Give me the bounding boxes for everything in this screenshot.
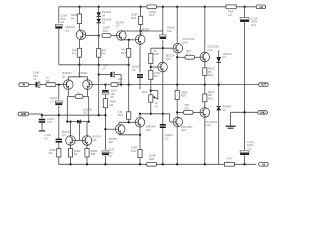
- svg-text:R9: R9: [102, 52, 106, 56]
- node gnd line C12 col: [243, 111, 245, 113]
- svg-text:Q10: Q10: [166, 57, 172, 61]
- node -V rail Q15: [176, 163, 178, 165]
- svg-text:F1: F1: [227, 160, 231, 164]
- svg-text:GND: GND: [260, 110, 266, 114]
- svg-text:Q12: Q12: [146, 128, 152, 132]
- node gnd line C13: [41, 114, 43, 116]
- node Q7 collector R16 col: [139, 30, 141, 32]
- wire Q12 collector down: [139, 127, 141, 149]
- node bridge right: [88, 120, 90, 122]
- capacitor C3: [50, 96, 62, 105]
- svg-text:D4: D4: [102, 13, 106, 17]
- node Q8 base tee: [104, 128, 106, 130]
- wire R5 to bus: [78, 57, 80, 65]
- svg-text:R4: R4: [74, 152, 78, 156]
- wire bus to diff emitter tap: [78, 65, 80, 77]
- resistor R7: [111, 77, 123, 86]
- svg-text:OUT: OUT: [261, 83, 267, 87]
- capacitor C1: [33, 71, 40, 88]
- transistor Q8: [109, 124, 125, 144]
- fuse F1: [224, 157, 234, 167]
- svg-text:Q9: Q9: [139, 31, 143, 35]
- wire Q2 collector up: [69, 120, 71, 135]
- node -V rail R4: [69, 163, 71, 165]
- wire gnd oval to line: [29, 114, 43, 115]
- terminal OUT: [259, 83, 268, 87]
- transistor Q4: [78, 71, 92, 89]
- node -V rail C9 col: [162, 163, 164, 165]
- svg-text:Q11: Q11: [83, 111, 88, 115]
- node bias line C9 col: [162, 113, 164, 115]
- svg-text:C1: C1: [33, 77, 37, 81]
- svg-text:Q14: Q14: [207, 48, 213, 52]
- node -V rail / C11 junction: [243, 163, 245, 165]
- wire C7 branch: [99, 74, 110, 76]
- node FB rail R14 col: [128, 83, 130, 85]
- svg-text:C10: C10: [167, 29, 173, 33]
- transistor Q15: [173, 117, 193, 132]
- wire Q4 collector down: [88, 89, 89, 121]
- wire R14 to bus: [128, 57, 130, 65]
- node rail R16: [139, 6, 141, 8]
- wire rail to R6: [78, 7, 80, 14]
- transistor Q14: [200, 45, 219, 62]
- node bias line trimmer col: [150, 113, 152, 115]
- node gnd line diode col: [98, 114, 100, 116]
- node Q15 top R21 tee: [176, 111, 178, 113]
- wire Q16 base line: [151, 47, 173, 49]
- wire gnd line down to C2: [104, 115, 106, 150]
- svg-text:C7: C7: [102, 66, 106, 70]
- wire diff emitter rail: [68, 77, 87, 80]
- wire C3 column: [58, 85, 60, 100]
- resistor R15: [149, 49, 159, 64]
- wire R15 to Q10 base: [150, 64, 152, 71]
- node bus R5: [78, 64, 80, 66]
- svg-text:R22: R22: [186, 53, 192, 57]
- svg-text:BIAS: BIAS: [142, 91, 148, 94]
- resistor R6: [71, 13, 82, 23]
- wire Q8 emitter lead: [118, 122, 120, 124]
- wire rail to R20: [176, 85, 178, 91]
- capacitor C11: [240, 140, 254, 155]
- wire Q1 collector down: [67, 89, 68, 121]
- svg-text:Q4: Q4: [78, 74, 82, 78]
- wire bottom -V rail: [59, 163, 257, 165]
- svg-text:C11: C11: [247, 146, 252, 150]
- capacitor C6: [102, 89, 117, 100]
- svg-text:R2: R2: [77, 92, 81, 96]
- wire D7 to output rail: [218, 62, 220, 106]
- wire Q14 collector to rail: [204, 7, 206, 52]
- node -V rail R11: [86, 163, 88, 165]
- svg-text:R15: R15: [154, 52, 160, 56]
- wire Q10 base stub: [151, 66, 158, 68]
- wire left gnd line: [42, 114, 105, 116]
- fuse F2: [226, 5, 236, 17]
- wire R7 to FB node: [118, 84, 121, 86]
- wire Q7 emitter to base line Q9: [121, 39, 135, 41]
- capacitor C5: [44, 133, 62, 142]
- wire trimmer to bias line: [150, 102, 152, 114]
- resistor R20: [175, 90, 187, 99]
- svg-text:D5: D5: [102, 21, 106, 25]
- node -V rail R18: [139, 163, 141, 165]
- svg-text:F2: F2: [228, 13, 232, 17]
- node +V rail / C12 junction: [243, 6, 245, 8]
- wire Q7 collector: [121, 30, 162, 32]
- transistor Q12: [135, 118, 156, 132]
- wire R14 col bus to FB rail: [128, 65, 130, 85]
- svg-text:R5: R5: [72, 51, 76, 55]
- wire Q15 collector to -V rail: [176, 127, 178, 165]
- svg-text:R1: R1: [46, 79, 50, 83]
- ground symbol input: [39, 122, 45, 130]
- transistor Q16: [173, 37, 195, 53]
- wire R18 to -V rail: [139, 158, 141, 165]
- wire R11 to -V rail: [86, 157, 88, 164]
- wire C1 to R1: [40, 84, 46, 86]
- wire C3 to gnd line: [58, 106, 60, 116]
- wire rail down to C10: [162, 7, 164, 35]
- diode D1: [77, 120, 81, 124]
- wire left column top: [58, 7, 60, 23]
- svg-text:GND: GND: [21, 112, 27, 116]
- resistor R13: [118, 110, 131, 119]
- svg-text:C2: C2: [108, 154, 112, 158]
- resistor R8: [103, 99, 116, 108]
- svg-text:D6: D6: [222, 108, 226, 112]
- resistor R2: [67, 92, 88, 99]
- wire IN to C1: [29, 84, 36, 86]
- capacitor C4: [55, 14, 67, 29]
- node Q12 base junction: [128, 121, 130, 123]
- resistor R5: [72, 48, 82, 57]
- node Q8 collector junction: [139, 134, 141, 136]
- node Q16 emitter R22 tee: [176, 56, 178, 58]
- capacitor C8: [132, 65, 143, 78]
- svg-text:R24: R24: [208, 73, 213, 77]
- wire ground line right: [231, 111, 259, 113]
- node C10 col base line: [162, 47, 164, 49]
- capacitor C12: [240, 16, 258, 27]
- svg-text:Q15: Q15: [181, 128, 187, 132]
- terminal IN: [19, 83, 29, 87]
- diode D7: [216, 52, 232, 62]
- wire base wire Q2 Q6: [73, 139, 83, 141]
- svg-text:R10: R10: [103, 29, 109, 33]
- resistor R9: [97, 48, 107, 57]
- svg-text:D7: D7: [222, 55, 226, 59]
- wire D5 to base line: [98, 23, 100, 36]
- transistor Q13: [200, 108, 217, 128]
- svg-text:Q16: Q16: [182, 41, 188, 45]
- svg-text:R3: R3: [49, 151, 53, 155]
- wire mid bus: [59, 64, 129, 66]
- wire R24 to output rail: [204, 76, 206, 85]
- resistor R19 on +V rail: [147, 5, 157, 17]
- svg-text:Q7: Q7: [116, 24, 120, 28]
- wire R17 down to trimmer: [150, 80, 152, 95]
- wire R13 to base junction: [128, 119, 130, 122]
- resistor R22: [185, 49, 195, 59]
- wire R3 to -V rail corner: [58, 157, 60, 164]
- wire Q6 emitter to R11: [86, 145, 88, 148]
- resistor R21: [183, 103, 193, 114]
- svg-text:C13: C13: [47, 120, 52, 124]
- wire Q8 collector line: [119, 133, 140, 136]
- wire R21 to Q13 base: [193, 111, 200, 113]
- svg-text:R21: R21: [184, 106, 190, 110]
- node bus R14: [128, 64, 130, 66]
- transistor Q9: [135, 28, 149, 45]
- svg-text:Q1: Q1: [62, 74, 66, 78]
- wire R1 to Q1 base: [56, 84, 64, 86]
- node gnd line R8: [104, 114, 106, 116]
- wire R8 to gnd line: [104, 108, 106, 116]
- wire Q13 collector to -V rail: [204, 117, 206, 164]
- svg-text:C4: C4: [61, 20, 65, 24]
- wire output rail to R23: [204, 85, 206, 94]
- svg-text:IN: IN: [23, 83, 26, 87]
- resistor R16: [131, 13, 143, 25]
- wire C10 to Q10: [162, 40, 164, 63]
- node bias line C8 col: [139, 113, 141, 115]
- node output rail diode col: [218, 83, 220, 85]
- wire Q6 collector up: [86, 122, 88, 136]
- wire R22 line: [177, 56, 185, 58]
- svg-text:R8: R8: [110, 103, 114, 107]
- wire C7 to FB node: [115, 75, 121, 85]
- svg-text:Q6: Q6: [93, 138, 97, 142]
- wire R10 to Q7: [111, 35, 117, 37]
- wire gnd line to C5: [58, 115, 60, 138]
- resistor R18: [131, 146, 142, 158]
- capacitor C13: [39, 115, 55, 124]
- wire D4 to D5: [98, 16, 100, 19]
- wire base line to R9: [98, 36, 100, 49]
- resistor R11: [85, 149, 97, 158]
- resistor R17: [149, 70, 161, 79]
- transistor Q3: [65, 25, 86, 40]
- svg-text:R20: R20: [181, 94, 187, 98]
- resistor R26 on -V rail: [147, 154, 157, 167]
- wire D6 to -V rail: [218, 110, 220, 164]
- svg-text:R14: R14: [121, 51, 127, 55]
- resistor R14: [121, 48, 131, 58]
- terminal IN GND: [18, 112, 28, 116]
- resistor R10: [102, 26, 111, 38]
- diode D4: [96, 10, 111, 17]
- wire C11 to -V rail: [244, 156, 246, 165]
- capacitor C2: [102, 148, 115, 159]
- node bridge tap: [78, 120, 80, 122]
- node rail R6: [78, 6, 80, 8]
- svg-text:C12: C12: [251, 23, 256, 27]
- svg-text:R6: R6: [71, 17, 75, 21]
- svg-text:R13: R13: [118, 113, 124, 117]
- terminal +55V: [256, 5, 265, 9]
- wire R20 to R21 tee: [177, 100, 183, 118]
- node rail diode col: [98, 6, 100, 8]
- wire C12 to gnd line to C11: [244, 22, 246, 150]
- node gnd line C3: [58, 114, 60, 116]
- wire Q16 emitter: [176, 53, 178, 85]
- wire C4 to bus: [58, 29, 60, 65]
- wire Q2 emitter to R4: [70, 145, 72, 148]
- wire top +V rail: [59, 6, 257, 8]
- capacitor C10: [160, 26, 175, 39]
- wire C8 to bias loop: [139, 78, 141, 90]
- wire FB to C6: [104, 85, 106, 89]
- wire bus down to gnd line: [98, 65, 100, 115]
- wire C6 to R8: [104, 95, 106, 99]
- node rail Q16 collector: [176, 6, 178, 8]
- svg-text:C3: C3: [50, 100, 54, 104]
- transistor Q7: [116, 20, 126, 40]
- ground symbol right: [226, 112, 236, 128]
- node base line diode col: [98, 34, 100, 36]
- wire Q3 to R5: [78, 40, 80, 49]
- node output rail emitters: [204, 83, 206, 85]
- wire Q4 base to R7: [92, 84, 111, 86]
- node rail C10 col: [162, 6, 164, 8]
- terminal -55V: [259, 162, 268, 166]
- wire bias line: [140, 113, 170, 115]
- svg-text:C9: C9: [165, 137, 169, 141]
- label Q11 text: [83, 107, 93, 114]
- svg-text:P1: P1: [155, 105, 159, 109]
- wire bias line to Q15 base: [170, 114, 173, 122]
- wire rail to D4: [98, 7, 100, 13]
- node -V rail Q13: [204, 163, 206, 165]
- node Q10 base: [150, 66, 152, 68]
- svg-text:R19: R19: [149, 13, 155, 17]
- wire R16 to Q9: [140, 25, 142, 35]
- svg-text:+55: +55: [259, 5, 264, 9]
- wire mid output rail: [121, 84, 259, 86]
- wire R22 to Q14 base: [195, 56, 201, 58]
- node bridge left: [66, 120, 68, 122]
- wire C5 to R3: [58, 142, 60, 148]
- wire R6 to Q3: [78, 24, 80, 31]
- wire Q8 Q12 base line: [119, 121, 135, 123]
- transistor Q2: [62, 130, 75, 145]
- resistor R4: [68, 149, 80, 158]
- svg-text:Q2: Q2: [62, 133, 66, 137]
- wire Q3 base line: [86, 35, 99, 37]
- wire Q9 emitter down: [139, 44, 141, 72]
- wire C2 to -V rail: [104, 156, 106, 165]
- diode D5: [96, 17, 111, 24]
- wire Q16 collector to rail: [176, 7, 178, 44]
- svg-text:Q13: Q13: [206, 123, 212, 127]
- diode D6: [216, 105, 232, 112]
- svg-text:C5: C5: [44, 137, 48, 141]
- trimmer P1: [142, 91, 159, 109]
- resistor R1: [46, 76, 56, 87]
- transistor Q6: [82, 135, 101, 146]
- wire tap to bases: [78, 122, 80, 141]
- node rail Q14 collector: [204, 6, 206, 8]
- svg-text:Q3: Q3: [65, 28, 69, 32]
- svg-text:R26: R26: [149, 157, 155, 161]
- node trimmer bypass tee: [150, 89, 152, 91]
- svg-text:R23: R23: [208, 96, 213, 100]
- node FB rail C6 col: [104, 83, 106, 85]
- wire rail to R16: [140, 7, 142, 16]
- node FB rail Q16 emitter: [176, 83, 178, 85]
- svg-text:R16: R16: [131, 16, 137, 20]
- wire C12 top: [244, 7, 246, 17]
- svg-text:R11: R11: [91, 152, 96, 156]
- wire R23 to Q13 emitter: [204, 102, 206, 108]
- transistor Q10: [158, 54, 175, 72]
- node input C3 tap: [58, 83, 60, 85]
- capacitor C7: [102, 63, 115, 77]
- transistor Q1: [62, 71, 73, 89]
- wire junction down to R14: [128, 40, 130, 49]
- wire C9 to -V rail: [162, 114, 164, 165]
- wire Q14 emitter to R24: [204, 62, 206, 68]
- node C7 tap: [98, 73, 100, 75]
- wire FB rail down to R13: [128, 85, 130, 112]
- wire R9 to bus: [98, 57, 100, 65]
- svg-text:R17: R17: [154, 74, 160, 78]
- node bus R9: [98, 64, 100, 66]
- node FB node: [120, 83, 122, 85]
- resistor R3: [49, 148, 61, 157]
- wire R4 to -V rail: [70, 157, 72, 164]
- node -V rail C2: [104, 163, 106, 165]
- wire diode bridge: [67, 121, 88, 123]
- capacitor C9: [160, 124, 173, 141]
- wire Q8 base line: [105, 128, 115, 130]
- terminal GND right: [258, 110, 267, 114]
- svg-text:R18: R18: [131, 149, 137, 153]
- wire diode column top: [218, 50, 220, 57]
- node Q9 base junction: [128, 39, 130, 41]
- svg-text:C8: C8: [132, 68, 136, 72]
- wire R15 top lead: [150, 48, 152, 53]
- resistor R23: [203, 90, 215, 102]
- resistor R24: [203, 67, 215, 78]
- wire bias line to Q12: [139, 114, 141, 118]
- wire Q10 emitter down: [162, 72, 164, 114]
- svg-text:Q8: Q8: [109, 140, 113, 144]
